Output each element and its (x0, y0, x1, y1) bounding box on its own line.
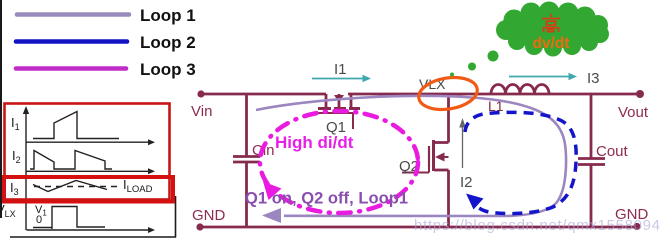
svg-text:dv/dt: dv/dt (532, 35, 569, 52)
svg-text:Vin: Vin (191, 103, 212, 120)
svg-text:0: 0 (36, 214, 42, 226)
svg-text:https://blog.csdn.net/qmx15580: https://blog.csdn.net/qmx1558094 (414, 217, 660, 234)
svg-text:Cout: Cout (596, 143, 629, 160)
svg-text:I3: I3 (587, 70, 600, 87)
svg-text:I1: I1 (334, 61, 347, 78)
svg-text:Loop 1: Loop 1 (140, 6, 196, 25)
svg-text:Vout: Vout (618, 104, 649, 121)
svg-text:GND: GND (192, 207, 226, 224)
svg-text:Loop 2: Loop 2 (140, 33, 196, 52)
svg-text:I2: I2 (460, 174, 473, 191)
svg-text:High di/dt: High di/dt (275, 133, 354, 152)
svg-text:Loop 3: Loop 3 (140, 60, 196, 79)
